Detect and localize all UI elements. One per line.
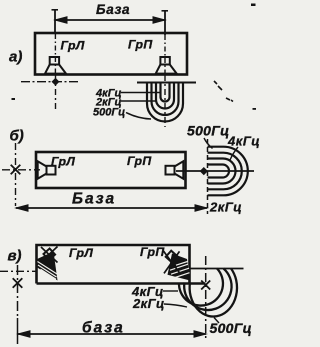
- listener star (panel v): [13, 278, 23, 288]
- svg-text:500Гц: 500Гц: [93, 107, 125, 119]
- listener axis horizontal (panel b): [2, 169, 40, 171]
- enclosure rectangle (panel a): [35, 33, 187, 75]
- svg-text:500Гц: 500Гц: [210, 320, 253, 336]
- listener axis vertical (panel v): [17, 265, 19, 318]
- dimension line (panel v): [18, 333, 206, 335]
- svg-text:база: база: [82, 320, 125, 337]
- dimension line (panel b): [16, 207, 207, 209]
- axis cross below left speaker (panel a): [21, 81, 79, 83]
- enclosure rectangle (panel v): [37, 245, 206, 284]
- axis line right (panel b): [176, 170, 254, 172]
- enclosure rectangle (panel b): [36, 152, 186, 188]
- scan smudge diagonal: [214, 81, 233, 102]
- loudspeaker right hatched (panel v): [163, 251, 190, 281]
- svg-text:4кГц: 4кГц: [227, 134, 260, 149]
- svg-text:ГрЛ: ГрЛ: [69, 246, 93, 260]
- axis dash-dot right speaker (panel a): [164, 75, 166, 127]
- svg-text:2кГц: 2кГц: [209, 200, 242, 215]
- svg-text:ГрЛ: ГрЛ: [51, 155, 75, 169]
- axis dash-dot vertical (panel v): [205, 256, 207, 341]
- scan speck left margin: [12, 98, 16, 100]
- axis star (panel v): [201, 281, 210, 290]
- loudspeaker right (panel a): [160, 57, 169, 65]
- svg-text:База: База: [72, 191, 116, 208]
- svg-text:ГрЛ: ГрЛ: [61, 39, 85, 53]
- junction dot (panel b): [200, 167, 208, 175]
- svg-text:б): б): [10, 128, 24, 145]
- mouth-plane line right speaker (panel a): [137, 82, 196, 84]
- mouth-plane line right (panel v): [191, 268, 244, 270]
- loudspeaker left (panel b): [47, 166, 56, 175]
- loudspeaker right (panel b): [166, 166, 175, 175]
- svg-text:в): в): [8, 248, 22, 265]
- listener star (panel b): [11, 165, 21, 175]
- mouth-plane dashed vertical (panel b): [207, 139, 209, 214]
- svg-text:ГрП: ГрП: [128, 38, 153, 52]
- extension line left (panel a): [54, 9, 56, 33]
- radiation pattern arcs (panel v): [179, 269, 223, 306]
- svg-text:а): а): [9, 49, 22, 66]
- loudspeaker left hatched (panel v): [36, 247, 58, 282]
- listener axis horizontal (panel v): [0, 270, 37, 272]
- radiation pattern curves (panel a): [161, 83, 170, 102]
- svg-text:ГрП: ГрП: [140, 245, 165, 259]
- loudspeaker left (panel a): [50, 57, 59, 65]
- svg-text:500Гц: 500Гц: [187, 123, 230, 139]
- scan speck top right: [251, 4, 256, 7]
- svg-text:ГрП: ГрП: [127, 154, 152, 168]
- scan speck right: [253, 108, 257, 110]
- svg-text:2кГц: 2кГц: [132, 296, 165, 311]
- radiation pattern curves (panel b): [208, 165, 230, 178]
- extension line right (panel a): [164, 10, 166, 35]
- dimension line with arrows (panel a): [55, 19, 165, 21]
- listener axis vertical (panel b): [15, 143, 17, 206]
- svg-text:База: База: [96, 2, 130, 17]
